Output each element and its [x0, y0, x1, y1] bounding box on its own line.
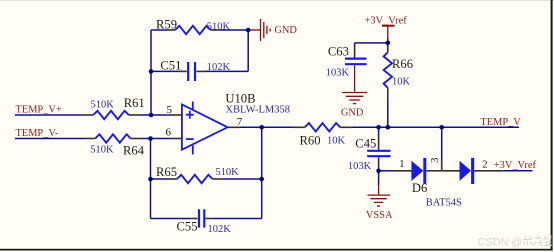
- svg-text:R66: R66: [392, 57, 413, 71]
- svg-text:CSDN @: CSDN @: [478, 236, 523, 248]
- svg-text:2: 2: [482, 158, 488, 170]
- svg-text:102K: 102K: [207, 62, 231, 73]
- svg-text:7: 7: [237, 116, 243, 128]
- svg-text:R60: R60: [300, 134, 321, 148]
- svg-text:R65: R65: [156, 165, 177, 179]
- svg-text:510K: 510K: [90, 145, 114, 156]
- svg-text:+3V_Vref: +3V_Vref: [365, 16, 408, 27]
- svg-text:TEMP_V+: TEMP_V+: [16, 105, 62, 116]
- svg-text:C45: C45: [355, 137, 376, 151]
- svg-text:102K: 102K: [208, 224, 232, 235]
- svg-text:C55: C55: [177, 220, 198, 234]
- svg-text:103K: 103K: [326, 68, 350, 79]
- svg-text:103K: 103K: [348, 161, 372, 172]
- svg-text:VSSA: VSSA: [366, 210, 393, 221]
- svg-text:C63: C63: [328, 45, 349, 59]
- svg-text:3: 3: [429, 157, 441, 163]
- svg-text:5: 5: [167, 104, 173, 116]
- svg-text:GND: GND: [274, 25, 297, 36]
- svg-text:R59: R59: [156, 18, 177, 32]
- svg-text:TEMP_V: TEMP_V: [480, 117, 521, 128]
- svg-text:BAT54S: BAT54S: [426, 198, 462, 209]
- svg-text:R64: R64: [123, 144, 145, 158]
- svg-text:C51: C51: [160, 59, 181, 73]
- svg-text:XBLW-LM358: XBLW-LM358: [225, 104, 290, 115]
- svg-text:10K: 10K: [392, 77, 411, 88]
- svg-text:10K: 10K: [327, 136, 346, 147]
- svg-text:6: 6: [166, 127, 172, 139]
- svg-text:1: 1: [399, 158, 405, 170]
- svg-text:D6: D6: [412, 181, 427, 195]
- svg-text:510K: 510K: [207, 22, 231, 33]
- svg-text:R61: R61: [124, 96, 145, 110]
- svg-text:510K: 510K: [215, 167, 239, 178]
- svg-text:GND: GND: [341, 108, 364, 119]
- svg-text:TEMP_V-: TEMP_V-: [16, 128, 59, 139]
- svg-text:+3V_Vref: +3V_Vref: [494, 160, 537, 171]
- svg-text:510K: 510K: [91, 99, 115, 110]
